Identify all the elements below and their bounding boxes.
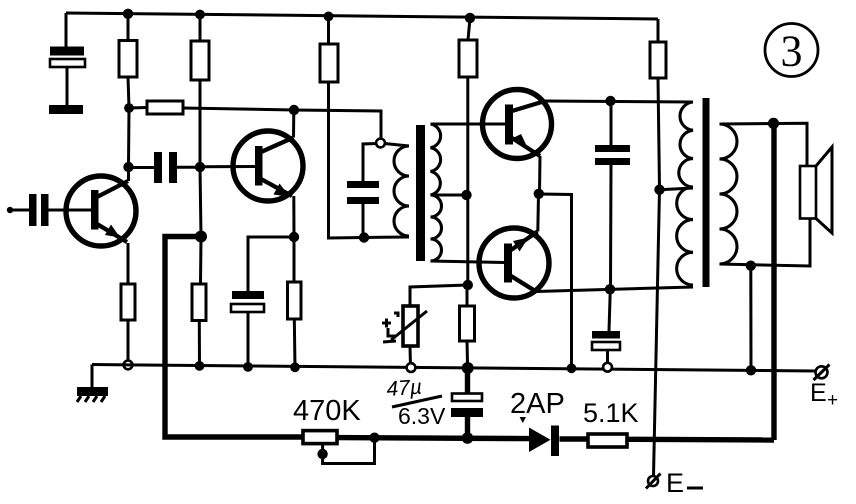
label fraction line — [392, 396, 442, 407]
wire mid E+ rail — [92, 365, 815, 372]
speaker LS — [800, 147, 832, 233]
transformer T2 core — [703, 98, 710, 287]
svg-text:2AP: 2AP — [510, 388, 565, 420]
wire — [128, 77, 129, 167]
svg-text:E: E — [666, 468, 684, 498]
node bus 47u junction — [462, 432, 474, 444]
wire — [127, 14, 130, 41]
node center tap — [461, 190, 471, 200]
input terminal — [7, 207, 13, 213]
resistor R8 — [192, 284, 206, 321]
svg-text:+: + — [827, 390, 838, 411]
node — [290, 362, 300, 372]
resistor R2 (horizontal) — [147, 101, 183, 114]
wire top supply rail — [66, 13, 658, 19]
wire — [466, 285, 469, 306]
wire divider vertical — [200, 167, 201, 284]
node E+ rail 47u junction — [462, 362, 474, 374]
svg-text:E: E — [810, 379, 827, 407]
wire input — [8, 209, 29, 212]
resistor R7 (Q1 emitter) — [121, 284, 135, 320]
wire Q1 collector — [127, 167, 130, 181]
wire thick bus segment 3 — [560, 436, 589, 441]
label 2AP pointer — [520, 417, 527, 423]
resistor R4 — [320, 44, 338, 82]
node (open) — [124, 361, 133, 370]
node emitter bypass junction — [289, 232, 299, 242]
wire Q3 emitter — [538, 156, 542, 194]
terminal E- — [646, 474, 661, 489]
wire — [129, 106, 147, 110]
resistor R10 470K — [303, 431, 337, 444]
node (open) — [603, 363, 612, 372]
wire T1 secondary bottom to Q4 base — [431, 261, 505, 263]
wire — [466, 341, 470, 368]
node thick line top — [768, 118, 779, 129]
wire thick bus segment 2 — [336, 438, 529, 439]
wire — [293, 237, 296, 282]
capacitor C1 filter (top-left) — [49, 47, 85, 115]
wire — [327, 16, 330, 44]
node rail/R4 — [324, 12, 334, 22]
wire ground lead — [91, 365, 94, 388]
transformer T1 core — [416, 125, 425, 261]
wire thick output line — [771, 123, 776, 440]
wire to Q1 base — [49, 209, 92, 212]
node secondary bottom junction — [746, 261, 756, 271]
resistor R1 — [119, 41, 137, 78]
wire common emitter to rail — [539, 194, 572, 368]
node — [746, 365, 756, 375]
transformer T2 primary winding — [677, 102, 693, 285]
capacitor CE2 electrolytic — [592, 331, 620, 367]
capacitor C4 tank — [347, 181, 379, 204]
node Q2 collector junction — [289, 105, 299, 115]
label E- — [666, 468, 703, 498]
transformer T2 secondary winding — [720, 124, 738, 264]
transistor Q2 — [233, 131, 303, 201]
wire Q2 base — [200, 165, 255, 168]
wire rail right drop — [657, 19, 660, 42]
capacitor C7 across primary — [595, 101, 630, 289]
node bias split — [463, 280, 473, 290]
wire — [199, 80, 202, 167]
wire — [247, 312, 250, 367]
wire secondary bottom to speaker — [720, 219, 811, 267]
wire R6 to tap/E- — [654, 78, 660, 476]
capacitor CE1 electrolytic bypass — [231, 291, 264, 312]
figure number circled 3 — [765, 24, 818, 77]
wire R4 to tank bottom — [329, 82, 410, 238]
wire Q2 collector — [292, 110, 295, 138]
node rail/R3 — [195, 10, 205, 20]
svg-text:3: 3 — [781, 27, 803, 76]
node C7 top junction — [605, 96, 615, 106]
capacitor C5 electrolytic 47u — [451, 368, 483, 438]
wire — [362, 204, 365, 238]
node Q2 base junction — [195, 162, 205, 172]
wire R2 to tank — [183, 108, 381, 140]
node tap — [654, 185, 664, 195]
wire to rail — [749, 266, 752, 371]
wire — [198, 321, 201, 367]
ground — [77, 387, 108, 402]
thermistor RT — [382, 306, 427, 346]
wire T1 center tap — [431, 194, 467, 197]
node tank top (open) — [376, 139, 385, 148]
svg-text:47µ: 47µ — [386, 376, 423, 401]
resistor R6 — [650, 42, 666, 78]
wire bias vertical — [466, 77, 469, 285]
resistor R5 — [459, 40, 477, 77]
wire Q4 collector line — [536, 287, 693, 292]
wire Q2 emitter — [292, 196, 295, 237]
wire Q3 collector line — [545, 101, 693, 102]
node loop/bus — [369, 433, 379, 443]
resistor R12 5.1K — [588, 434, 627, 447]
wire thermistor branch — [410, 285, 468, 306]
node — [567, 363, 577, 373]
wire pot loop — [323, 438, 375, 464]
terminal E+ — [814, 365, 830, 381]
node rail/R1 — [123, 9, 133, 19]
wire T1 secondary top to Q3 base — [431, 123, 506, 126]
wire Q4 emitter — [536, 194, 540, 232]
wire bypass branch — [248, 237, 294, 291]
node wiper — [317, 449, 327, 459]
node common emitter — [534, 189, 544, 199]
resistor R3 — [191, 41, 209, 80]
node C7 bottom junction — [605, 284, 615, 294]
wire — [199, 15, 202, 42]
wire tank top to coil — [385, 144, 410, 147]
resistor R9 (Q2 emitter) — [288, 282, 302, 319]
capacitor C2 input coupling — [29, 194, 49, 226]
diode D1 2AP — [529, 426, 559, 457]
node Q1 collector junction — [123, 162, 133, 172]
node rail/R5 — [465, 13, 475, 23]
label E+ — [810, 379, 838, 411]
node tank bottom — [359, 232, 369, 242]
svg-text:6.3V: 6.3V — [398, 403, 446, 429]
wire — [127, 320, 130, 365]
wire rail left drop — [65, 13, 68, 47]
wire Q1 emitter lead — [127, 243, 130, 284]
node (open) — [407, 363, 416, 372]
resistor R11 (bias) — [460, 306, 475, 341]
node — [195, 361, 205, 371]
wire — [468, 18, 470, 40]
wire to CE2 — [609, 289, 610, 331]
wire T2 center tap — [660, 188, 694, 190]
wire thick feedback line — [165, 237, 303, 438]
wire thick bus segment 4 — [627, 437, 774, 443]
wire — [293, 319, 297, 367]
transistor Q1 — [66, 176, 136, 246]
transistor Q4 — [479, 228, 549, 298]
node R1/R2 junction — [124, 103, 134, 113]
wire secondary top to speaker — [720, 123, 808, 166]
svg-text:470K: 470K — [293, 395, 361, 427]
wire — [409, 346, 413, 368]
transistor Q3 — [483, 90, 552, 159]
transformer T1 secondary winding — [431, 124, 442, 261]
wire tank left branch — [363, 144, 377, 182]
capacitor C3 interstage coupling — [129, 152, 201, 183]
svg-text:5.1K: 5.1K — [583, 398, 639, 428]
transformer T1 primary winding — [394, 146, 409, 236]
node — [243, 362, 253, 372]
node thick feedback tap — [195, 231, 207, 243]
